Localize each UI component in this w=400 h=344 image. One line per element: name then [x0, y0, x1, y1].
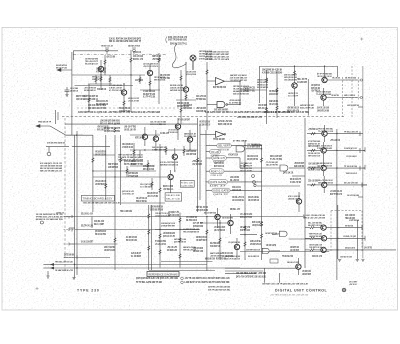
wire — [278, 273, 280, 283]
label Q21 — [222, 216, 233, 219]
svg-text:TRIG +15V 4.7K TP: TRIG +15V 4.7K TP — [85, 60, 98, 63]
wire left boundary dashed — [64, 118, 66, 272]
wire Q8 emitter — [323, 100, 325, 106]
resistor R18 — [311, 167, 316, 169]
component row note — [78, 111, 161, 114]
wire — [225, 267, 297, 269]
svg-text:-15V 4.7K SEL -15V: -15V 4.7K SEL -15V — [122, 193, 134, 196]
svg-text:47 -15V 100 5.6K: 47 -15V 100 5.6K — [109, 89, 122, 92]
svg-text:TP SEL 2.2K 4.7K: TP SEL 2.2K 4.7K — [344, 130, 358, 133]
wire — [226, 157, 240, 159]
svg-text:+15V TRIG 1K: +15V TRIG 1K — [311, 90, 320, 93]
wire stub br3 — [305, 249, 310, 251]
wire dashed right box edge — [351, 66, 353, 117]
and gate U12 — [262, 248, 269, 253]
svg-text:-15V 2.2K L240 0.1: -15V 2.2K L240 0.1 — [346, 155, 357, 158]
svg-text:1K 0.001 +75V 10K: 1K 0.001 +75V 10K — [290, 181, 301, 184]
value label r6 — [330, 139, 340, 142]
svg-text:3.3K 0.1 R247 56K 5.6K D245 D2: 3.3K 0.1 R247 56K 5.6K D245 D245 Q473 — [109, 38, 142, 41]
svg-text:GATE VERT D245: GATE VERT D245 — [108, 166, 118, 169]
wire tick — [68, 228, 70, 231]
svg-text:56K 0.1 100 56K GATE C231 0.00: 56K 0.1 100 56K GATE C231 0.001 TP — [109, 40, 141, 43]
resistor R6 — [149, 81, 151, 85]
svg-text:VERT C231 R247 680 +75V 0.001: VERT C231 R247 680 +75V 0.001 0.1 — [118, 153, 144, 156]
value label m9 — [163, 185, 173, 191]
wire — [200, 222, 227, 224]
wire stub g7 — [200, 133, 216, 135]
svg-text:REFERENCE DIAGRAMS: REFERENCE DIAGRAMS — [149, 272, 178, 276]
transistor Q6 — [292, 83, 297, 88]
svg-text:R247 0.001 1K: R247 0.001 1K — [214, 165, 224, 168]
and gate U11 — [280, 165, 288, 171]
wire — [57, 112, 59, 120]
svg-text:56K GATE GATE 5.6K: 56K GATE GATE 5.6K — [56, 64, 67, 67]
svg-text:2.2K 0.1 0.001 D245 0.001: 2.2K 0.1 0.001 D245 0.001 — [150, 123, 166, 126]
ground — [72, 278, 75, 280]
note oscilloscope — [264, 111, 309, 114]
value label m7 — [131, 160, 143, 166]
wire — [244, 140, 246, 212]
wire — [324, 125, 326, 131]
wire stub br1b — [314, 227, 321, 229]
svg-text:4.7K D245 1K 100: 4.7K D245 1K 100 — [122, 146, 133, 149]
circled note 2 — [181, 281, 184, 284]
svg-text:2.2K 47 D245: 2.2K 47 D245 — [70, 87, 78, 90]
value label bl5 — [94, 220, 104, 226]
svg-text:D245 0.1 4.7K: D245 0.1 4.7K — [133, 58, 143, 61]
arrow left 1 — [50, 263, 54, 266]
junction — [159, 149, 160, 150]
value label tr1 — [269, 90, 278, 96]
svg-text:10K 2.2K 56K: 10K 2.2K 56K — [332, 78, 340, 80]
svg-text:4.7K 0.1 2.2K 10K: 4.7K 0.1 2.2K 10K — [288, 195, 300, 198]
svg-text:D245 +15V TP L240: D245 +15V TP L240 — [300, 107, 315, 110]
svg-text:Q473 GATE: Q473 GATE — [210, 180, 227, 184]
note row mid 2 — [185, 281, 230, 284]
wire stub g5 — [206, 181, 208, 183]
svg-text:L240 2.2K 3.3K 680: L240 2.2K 3.3K 680 — [186, 70, 196, 73]
value label br3 — [312, 255, 322, 258]
value label Q4 — [186, 70, 196, 76]
svg-text:SEL 0.1 VERT: SEL 0.1 VERT — [94, 223, 104, 226]
value label — [160, 161, 178, 167]
junction — [239, 104, 240, 105]
svg-text:56K 100 2.2K TRIG: 56K 100 2.2K TRIG — [95, 233, 106, 236]
svg-text:L240 R247 +75V: L240 R247 +75V — [56, 211, 64, 214]
svg-text:-15V 47 TP C231 100: -15V 47 TP C231 100 — [317, 165, 333, 168]
svg-text:3.3K TP 4.7K: 3.3K TP 4.7K — [135, 79, 143, 82]
wire Q7 output — [327, 79, 358, 81]
wire — [66, 134, 93, 136]
note bottom right 1 — [303, 214, 325, 220]
junction — [357, 249, 358, 250]
value label r4 — [308, 180, 318, 183]
wire — [159, 212, 161, 268]
junction — [130, 74, 131, 75]
svg-text:SEL TP 4.7K L240: SEL TP 4.7K L240 — [81, 225, 93, 228]
svg-text:10K 10K GATE 1K: 10K 10K GATE 1K — [199, 123, 210, 126]
wire — [133, 143, 135, 160]
svg-text:47 TRIG 10K 47: 47 TRIG 10K 47 — [233, 139, 248, 142]
value label bc26 — [193, 222, 203, 228]
value label tl3 — [160, 74, 170, 80]
resistor R55 — [126, 169, 128, 174]
resistor R48 — [148, 246, 150, 251]
wire — [323, 159, 325, 165]
value label bc29 — [193, 247, 203, 253]
wire Q3 collector — [149, 64, 151, 70]
resistor R11 — [105, 184, 107, 189]
wire — [100, 84, 102, 90]
wire — [105, 135, 107, 200]
wire stub g1 — [206, 145, 217, 147]
svg-text:4.7K 0.1 VERT: 4.7K 0.1 VERT — [349, 280, 357, 283]
wire — [230, 189, 262, 191]
svg-text:TYPE 230: TYPE 230 — [77, 288, 100, 292]
label Q6 — [284, 73, 297, 81]
label Q11 — [168, 129, 178, 134]
svg-text:3.3K 47 +15V 47: 3.3K 47 +15V 47 — [109, 87, 123, 90]
svg-text:1K SAW 100 3.3K +75V: 1K SAW 100 3.3K +75V — [55, 269, 73, 272]
value label oa3 — [183, 104, 192, 110]
label Q9 Q10 — [150, 120, 166, 126]
junction — [123, 83, 124, 84]
value label oa1 — [196, 95, 206, 101]
value label bc10 — [150, 206, 163, 212]
wire rail y85 — [75, 85, 134, 87]
svg-text:TRIG 680 1K TP: TRIG 680 1K TP — [38, 121, 51, 123]
wire — [180, 70, 182, 124]
value label bc17 — [163, 232, 175, 238]
svg-text:SEL VERT: SEL VERT — [218, 144, 230, 148]
label U1 — [213, 86, 226, 89]
resistor R53 — [139, 77, 141, 81]
wire — [130, 165, 155, 167]
wire — [93, 170, 156, 172]
svg-text:D245 2.2K 0.001 47: D245 2.2K 0.001 47 — [346, 172, 357, 175]
svg-text:680 0.1 680 4.7K: 680 0.1 680 4.7K — [287, 109, 299, 112]
junction — [155, 149, 156, 150]
svg-text:C231 VERT 3.3K 10K: C231 VERT 3.3K 10K — [309, 247, 322, 249]
wire tick — [359, 131, 361, 136]
svg-text:0.1 680 +15V: 0.1 680 +15V — [160, 132, 169, 135]
value label tr3 — [311, 84, 320, 93]
value label c2 — [160, 132, 169, 135]
svg-text:GATE TP D245 680 0.001: GATE TP D245 680 0.001 — [168, 39, 188, 42]
value label bc2 — [161, 222, 175, 228]
label Q18 — [317, 163, 333, 168]
value label tl10 — [88, 104, 106, 110]
value label bl2 — [81, 225, 93, 228]
wire — [74, 275, 76, 278]
value label bc14 — [240, 213, 252, 219]
value label m15 — [128, 172, 138, 178]
svg-text:GATE VERT GATE 2.2K: GATE VERT GATE 2.2K — [250, 243, 261, 246]
label Q22 — [228, 241, 240, 244]
value label gates bottom — [232, 196, 244, 202]
svg-text:C231 4.7K 1K D245 5.6K: C231 4.7K 1K D245 5.6K — [225, 258, 240, 261]
junction — [336, 133, 337, 134]
value label tl6 — [177, 102, 189, 108]
svg-text:56K L240 C231 VERT GATE VERT: 56K L240 C231 VERT GATE VERT — [205, 53, 229, 56]
svg-text:47 1K TRIG D245: 47 1K TRIG D245 — [308, 140, 321, 143]
wire — [189, 142, 191, 150]
wire tick — [76, 255, 78, 259]
wire — [240, 167, 280, 169]
wire — [147, 160, 149, 171]
resistor R29 — [148, 230, 150, 235]
svg-text:2.2K D245 VERT: 2.2K D245 VERT — [302, 273, 311, 276]
label pot — [47, 141, 66, 144]
svg-text:100 R247 C231 3.3K TP Q473 680: 100 R247 C231 3.3K TP Q473 680 +15V 10K … — [262, 282, 308, 285]
note right of Q4 — [199, 50, 212, 61]
svg-text:10K R247 C231 -15V: 10K R247 C231 -15V — [101, 44, 113, 47]
wire stub br2 — [305, 237, 310, 239]
resistor R26 — [265, 108, 267, 112]
junction — [294, 66, 295, 67]
svg-text:GATE 10K 680: GATE 10K 680 — [64, 254, 74, 257]
resistor R4 — [123, 101, 125, 105]
svg-text:47 SAW SAW: 47 SAW SAW — [128, 175, 138, 178]
wire — [120, 135, 122, 205]
value label br — [340, 255, 352, 258]
svg-text:TP +15V 56K: TP +15V 56K — [160, 77, 170, 80]
value label tl2 — [143, 90, 155, 99]
svg-text:+75V 3.3K +15V GATE: +75V 3.3K +15V GATE — [128, 100, 139, 103]
label Q8 — [316, 90, 331, 96]
svg-text:C231 D245 100: C231 D245 100 — [196, 110, 206, 113]
value label gates bottom 2 — [248, 196, 259, 202]
svg-text:TP 56K SEL: TP 56K SEL — [196, 98, 206, 101]
wire rail top of mid — [65, 123, 198, 125]
svg-text:DIGITAL UNIT CONTROL: DIGITAL UNIT CONTROL — [275, 289, 327, 293]
svg-text:0.001 GATE: 0.001 GATE — [213, 188, 229, 192]
wire tick br2 — [364, 236, 366, 241]
svg-text:SEL 47 C40: SEL 47 C40 — [166, 199, 181, 201]
svg-text:680 680 100 -15V SAW L240 TRIG: 680 680 100 -15V SAW L240 TRIG — [36, 218, 63, 221]
svg-text:+75V L240 1K: +75V L240 1K — [330, 139, 340, 142]
svg-text:680 SEL -15V: 680 SEL -15V — [230, 208, 240, 211]
resistor R50 — [260, 234, 262, 239]
note block 2 — [233, 85, 250, 96]
transistor Q15 — [296, 199, 301, 204]
wire stub br2b — [314, 237, 321, 239]
wire — [337, 205, 339, 259]
svg-text:-15V TP 2.2K VERT 0.001 4.7K R: -15V TP 2.2K VERT 0.001 4.7K R247 VERT 0… — [185, 277, 230, 280]
wire Q6 emitter — [294, 88, 296, 100]
wire — [155, 130, 157, 136]
value label tl5 — [76, 95, 85, 101]
wire — [307, 79, 309, 116]
svg-text:56K TP +15V -15V: 56K TP +15V -15V — [124, 163, 136, 166]
junction — [219, 222, 220, 223]
wire — [261, 215, 263, 260]
wire — [55, 110, 57, 124]
value label bc30 — [205, 258, 215, 261]
wire — [228, 181, 262, 183]
wire — [356, 220, 358, 259]
svg-text:100 3.3K 5.6K SAW L240 5.6K 10: 100 3.3K 5.6K SAW L240 5.6K 10K C231 3.3… — [83, 202, 120, 205]
svg-text:10K +75V 56K L240: 10K +75V 56K L240 — [347, 194, 359, 197]
svg-text:Q473 2.2K -15V +75V: Q473 2.2K -15V +75V — [163, 235, 175, 238]
svg-text:D245 5.6K +15V TRIG: D245 5.6K +15V TRIG — [240, 170, 252, 173]
svg-text:47 +15V 1K R247: 47 +15V 1K R247 — [178, 119, 190, 122]
svg-text:10K 47: 10K 47 — [209, 186, 227, 188]
input arrow LINE — [57, 69, 72, 72]
resistor R24 — [180, 76, 182, 80]
svg-text:47 0.001 1K: 47 0.001 1K — [133, 51, 141, 54]
wire — [231, 145, 262, 147]
wire — [123, 107, 125, 112]
resistor R13 — [196, 158, 198, 163]
value label m12 — [192, 160, 203, 166]
svg-text:10K Q473 Q473 TRIG: 10K Q473 Q473 TRIG — [247, 158, 258, 161]
wire — [225, 270, 263, 272]
net label rail4 — [55, 262, 74, 264]
wire — [174, 160, 176, 171]
svg-text:+15V -15V -15V 56K: +15V -15V -15V 56K — [147, 195, 158, 198]
svg-text:100 1K D245 TRIG: 100 1K D245 TRIG — [222, 216, 233, 219]
svg-text:3.3K 0.001 100: 3.3K 0.001 100 — [269, 93, 278, 96]
resistor R9 — [120, 158, 122, 163]
value label m13 — [178, 119, 190, 122]
svg-text:R SEL 10K: R SEL 10K — [181, 182, 194, 184]
svg-text:SEL VERT 2.2K 5.6K: SEL VERT 2.2K 5.6K — [308, 225, 322, 227]
note under relay box — [83, 202, 120, 205]
junction — [337, 249, 338, 250]
wire stub dash 1 — [64, 216, 75, 218]
svg-text:3.3K 1K 3.3K SAW +75V: 3.3K 1K 3.3K SAW +75V — [230, 77, 247, 80]
junction — [92, 170, 93, 171]
transistor Q5 — [183, 87, 188, 92]
value label oa4 — [258, 104, 267, 110]
svg-text:VERT 5.6K 47 3.3K: VERT 5.6K 47 3.3K — [308, 155, 320, 158]
value label r2 — [308, 145, 318, 148]
svg-text:R247 TRIG 680: R247 TRIG 680 — [216, 258, 226, 261]
svg-text:4.7K -15V C231: 4.7K -15V C231 — [96, 70, 106, 73]
value label g9 — [290, 178, 301, 184]
resistor R10 — [92, 158, 94, 163]
svg-text:C231 4.7K: C231 4.7K — [211, 175, 223, 177]
net label far — [364, 247, 372, 250]
net label Q24 — [345, 224, 353, 227]
junction — [114, 123, 115, 124]
wire — [93, 176, 167, 178]
value label bc1 — [155, 213, 170, 218]
resistor R28 — [114, 238, 116, 243]
svg-text:C231 680: C231 680 — [181, 185, 194, 187]
wire rail 257 — [64, 257, 110, 259]
wire — [206, 62, 208, 130]
wire — [219, 220, 221, 260]
wire long rail 4 — [54, 264, 207, 266]
svg-text:Q473 +75V GATE R247 2.2K 0.001: Q473 +75V GATE R247 2.2K 0.001 0.001 — [236, 275, 266, 278]
wire stub br3b — [314, 249, 321, 251]
resistor R30 — [179, 218, 181, 223]
svg-text:SEL C231 VERT D245: SEL C231 VERT D245 — [204, 211, 216, 214]
svg-text:5.6K 680 1K: 5.6K 680 1K — [97, 88, 106, 91]
resistor R23 — [206, 70, 208, 74]
resistor R27 — [276, 106, 278, 110]
wire cable squiggle — [172, 44, 186, 68]
note see parts list — [208, 286, 230, 292]
wire out Q19 — [327, 184, 367, 186]
svg-text:10K 0.001 56K GATE 10K 56K: 10K 0.001 56K GATE 10K 56K — [40, 165, 62, 168]
wire — [174, 148, 176, 154]
wire U2 input — [207, 104, 217, 106]
resistor R22 — [276, 88, 278, 92]
label U13 — [265, 232, 277, 235]
note timing rows — [118, 153, 144, 161]
wire — [323, 188, 325, 193]
resistor R17 — [311, 149, 316, 151]
label TP1 — [101, 44, 113, 47]
wire Q8 collector — [323, 88, 325, 95]
value label tp mid — [106, 56, 115, 59]
note row right 1 — [236, 273, 267, 275]
wire — [72, 146, 110, 148]
svg-text:C231 2.2K L240: C231 2.2K L240 — [232, 189, 241, 192]
value label C1 — [70, 87, 78, 93]
net label mid — [346, 155, 357, 158]
value label bc3 — [183, 228, 199, 234]
wire Q1 emitter — [100, 72, 102, 84]
junction — [159, 229, 160, 230]
junction — [336, 184, 337, 185]
wire tick — [71, 215, 73, 218]
diode D1 — [252, 175, 255, 178]
svg-text:680 5.6K 100: 680 5.6K 100 — [205, 258, 215, 261]
svg-text:Q473 Q473 D245 2.2K 4.7K Q473: Q473 Q473 D245 2.2K 4.7K Q473 4.7K -15V … — [136, 277, 179, 280]
svg-text:R247 0.1: R247 0.1 — [211, 170, 223, 174]
junction — [76, 267, 77, 268]
value label U2 — [229, 99, 241, 105]
test point TP2 — [132, 48, 136, 55]
wire — [246, 148, 262, 150]
wire — [177, 118, 179, 124]
value label oa2 — [196, 107, 206, 113]
note row right 2 — [236, 275, 266, 278]
wire — [155, 229, 199, 231]
svg-text:DELAY LINE: DELAY LINE — [166, 194, 181, 197]
svg-text:+15V C231 680: +15V C231 680 — [106, 56, 115, 59]
wire stub r3 — [307, 167, 321, 169]
wire bus left A — [71, 52, 73, 135]
value label m11 — [186, 150, 196, 156]
value label r5 — [330, 190, 342, 196]
svg-text:D245 Q473 L240 100: D245 Q473 L240 100 — [345, 247, 355, 250]
wire box top — [260, 65, 338, 67]
svg-text:GATE -15V 4.7K 3.3K 4.7K: GATE -15V 4.7K 3.3K 4.7K — [168, 36, 187, 39]
resistor R7 — [185, 95, 187, 99]
value label m8 — [143, 165, 154, 171]
wire — [144, 140, 146, 147]
junction — [100, 74, 101, 75]
svg-text:R247 56K 56K 5.6K: R247 56K 56K 5.6K — [213, 86, 226, 89]
svg-text:56K 1K SAW 1K 100: 56K 1K SAW 1K 100 — [318, 182, 334, 185]
transistor Q20 — [215, 214, 220, 219]
svg-text:VERT R247 D245: VERT R247 D245 — [345, 224, 353, 227]
svg-text:680 10K 0.001 47 56K: 680 10K 0.001 47 56K — [88, 107, 106, 110]
svg-text:L240 TRIG TP -15V: L240 TRIG TP -15V — [288, 92, 298, 95]
wire — [240, 89, 267, 91]
svg-text:SEL 0.1 680 0.1 SAW: SEL 0.1 680 0.1 SAW — [100, 122, 121, 125]
wire ext4 — [363, 184, 367, 186]
ground — [46, 276, 49, 278]
svg-text:Q473 5.6K Q473 D245: Q473 5.6K Q473 D245 — [186, 73, 196, 76]
gate U8 — [208, 180, 227, 188]
wire out Q18 — [326, 167, 365, 169]
